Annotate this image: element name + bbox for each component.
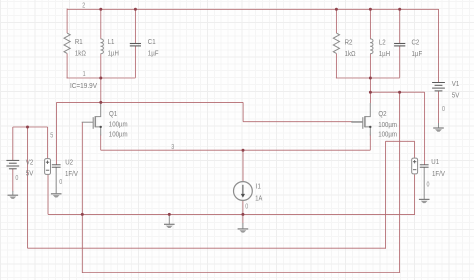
svg-text:0: 0 xyxy=(427,181,430,188)
svg-text:V1: V1 xyxy=(452,81,460,88)
current source I1 xyxy=(234,182,253,201)
svg-text:Q2: Q2 xyxy=(378,111,386,118)
svg-text:100µm: 100µm xyxy=(378,122,397,129)
wire control bottom horizontal xyxy=(28,247,386,249)
svg-text:5: 5 xyxy=(50,133,53,140)
wire L2 top lead xyxy=(369,9,371,39)
junction dot I1 on ground bus xyxy=(241,213,244,216)
wire U2 box top lead xyxy=(47,127,49,159)
svg-text:L1: L1 xyxy=(108,39,115,46)
wire control to U1 box top xyxy=(386,140,415,142)
svg-text:3: 3 xyxy=(171,144,174,151)
wire Q1 gate vertical xyxy=(81,122,83,273)
svg-text:100µm: 100µm xyxy=(378,132,397,139)
svg-text:1kΩ: 1kΩ xyxy=(345,51,356,58)
svg-text:R2: R2 xyxy=(345,40,353,47)
svg-text:V2: V2 xyxy=(26,159,34,166)
wire tank2 bottom rail xyxy=(336,77,400,79)
battery V2 xyxy=(6,160,19,168)
voltage-controlled capacitor U2 plates xyxy=(52,165,61,167)
junction dot C1 top xyxy=(134,8,137,11)
svg-text:0: 0 xyxy=(245,204,248,211)
resistor R1 xyxy=(64,33,70,53)
wire node4 horizontal xyxy=(370,91,424,93)
ground bus tap ground symbol xyxy=(164,224,175,228)
svg-text:IC=19.9V: IC=19.9V xyxy=(70,83,97,90)
ground V2 xyxy=(8,195,19,199)
svg-text:U1: U1 xyxy=(431,159,439,166)
svg-text:U2: U2 xyxy=(65,160,73,167)
wire U1 cap bottom lead xyxy=(423,168,425,200)
transistor Q1 xyxy=(82,103,102,136)
wire I1 top lead xyxy=(242,150,244,181)
label L1 xyxy=(108,39,119,57)
wire node 5 vertical to U2 cap xyxy=(56,102,58,164)
junction dot wire3 I1 tap xyxy=(242,149,245,152)
junction dot cross-couple tap xyxy=(398,91,401,94)
label R2 xyxy=(345,40,356,58)
svg-text:5V: 5V xyxy=(452,92,460,99)
svg-text:0: 0 xyxy=(442,106,445,113)
junction dot Q2 drain xyxy=(369,91,372,94)
wire node1 horizontal xyxy=(57,101,244,103)
wire cross-couple bottom xyxy=(82,272,400,274)
wire L2 bottom lead xyxy=(369,54,371,78)
label R1 xyxy=(75,39,86,57)
svg-text:1A: 1A xyxy=(255,196,262,203)
wire U1 box bottom lead xyxy=(414,175,416,215)
wire tank1 bottom rail node 1 xyxy=(67,77,136,79)
wire Q2 source drop xyxy=(369,135,371,151)
voltage-controlled capacitor U2 box xyxy=(45,159,51,175)
svg-text:1µH: 1µH xyxy=(379,51,390,58)
junction dot control tap xyxy=(26,126,29,129)
transistor Q2 xyxy=(351,103,371,136)
wire R2 bottom lead xyxy=(335,53,337,78)
wire U2 box bottom lead xyxy=(47,174,49,214)
wire R1 bottom lead xyxy=(66,53,68,78)
svg-text:C2: C2 xyxy=(412,40,420,47)
inductor L2 xyxy=(370,39,373,54)
capacitor C1 xyxy=(130,44,141,46)
svg-text:1µH: 1µH xyxy=(108,51,119,58)
wire cross-couple vertical right xyxy=(399,92,401,272)
wire U1 box top lead xyxy=(414,141,416,158)
ground I1 xyxy=(238,229,249,233)
wire top rail node 2 xyxy=(67,8,438,10)
wire V2 top lead xyxy=(12,127,14,161)
svg-text:2: 2 xyxy=(82,3,85,10)
battery V1 xyxy=(432,83,445,91)
junction dot node1 rail xyxy=(99,77,102,80)
wire node1 jog down xyxy=(242,102,244,121)
wire control rise to U1 xyxy=(385,141,387,249)
svg-text:0: 0 xyxy=(15,175,18,182)
label C1 xyxy=(148,39,159,57)
label Q1 xyxy=(109,111,128,138)
wire Q1 source drop xyxy=(100,135,102,151)
wire V2 ground stub xyxy=(12,191,14,195)
junction dot Q1 drain xyxy=(99,101,102,104)
wire control V2 to U2 top xyxy=(13,126,48,128)
inductor L1 xyxy=(101,39,104,54)
wire Q2 gate gray lead xyxy=(351,121,363,123)
wire node4 drop to Q2 drain xyxy=(369,78,371,103)
wire C2 top lead xyxy=(399,9,401,43)
wire control vertical drop xyxy=(27,127,29,248)
svg-text:R1: R1 xyxy=(75,39,83,46)
wire ground bus tap stub xyxy=(168,214,170,224)
wire L1 bottom lead xyxy=(100,54,102,78)
wire to Q2 gate xyxy=(243,121,352,123)
wire V2 bottom lead xyxy=(12,168,14,191)
label V2 xyxy=(26,159,34,177)
svg-text:1: 1 xyxy=(83,71,86,78)
svg-text:100µm: 100µm xyxy=(109,122,128,129)
ground V1 xyxy=(433,128,444,132)
wire ground bus xyxy=(48,213,415,215)
label C2 xyxy=(412,40,423,58)
label V1 xyxy=(452,81,460,99)
wire V1 bottom lead xyxy=(438,91,440,124)
wire I1 ground stub xyxy=(242,223,244,229)
svg-text:1F/V: 1F/V xyxy=(65,171,78,178)
ground U2 xyxy=(51,194,62,198)
junction dot L1 top xyxy=(99,8,102,11)
wire R1 top lead xyxy=(66,9,68,34)
svg-text:1F/V: 1F/V xyxy=(432,171,445,178)
voltage-controlled capacitor U1 plates xyxy=(420,165,429,167)
wire V1 ground stub xyxy=(438,123,440,128)
label I1 xyxy=(255,184,262,203)
junction dot C2 top xyxy=(398,8,401,11)
wire V1 top lead xyxy=(438,9,440,83)
wire R2 top lead xyxy=(335,9,337,33)
capacitor C2 xyxy=(394,44,405,46)
junction dot ground bus tap xyxy=(168,213,171,216)
svg-text:L2: L2 xyxy=(379,40,386,47)
wire U1 cap top vertical xyxy=(424,92,426,164)
wire L1 top lead xyxy=(100,9,102,39)
svg-text:100µm: 100µm xyxy=(109,131,128,138)
wire C2 bottom lead xyxy=(399,46,401,78)
wire U2 cap bottom lead xyxy=(55,168,57,194)
voltage-controlled capacitor U1 box xyxy=(412,158,418,174)
wire I1 bottom lead xyxy=(242,201,244,224)
label Q2 xyxy=(378,111,397,139)
label U1 xyxy=(431,159,445,178)
label L2 xyxy=(379,40,390,58)
resistor R2 xyxy=(333,33,339,53)
svg-text:1µF: 1µF xyxy=(148,51,159,58)
junction dot gate line on ground bus xyxy=(81,213,84,216)
wire C1 top lead xyxy=(134,9,136,43)
svg-text:C1: C1 xyxy=(148,39,156,46)
junction dot node4 rail xyxy=(369,77,372,80)
svg-text:I1: I1 xyxy=(256,184,261,191)
ground U1 xyxy=(419,199,430,203)
svg-text:5V: 5V xyxy=(26,171,34,178)
junction dot L2 top xyxy=(369,8,372,11)
svg-text:1kΩ: 1kΩ xyxy=(75,51,86,58)
wire node1 drop to Q1 drain xyxy=(100,78,102,103)
svg-text:0: 0 xyxy=(59,179,62,186)
wire C1 bottom lead xyxy=(134,46,136,78)
label U2 xyxy=(65,160,78,178)
svg-text:1µF: 1µF xyxy=(412,51,423,58)
junction dot R2 top xyxy=(335,8,338,11)
svg-text:Q1: Q1 xyxy=(109,111,117,118)
wire 3 horizontal xyxy=(101,149,371,151)
